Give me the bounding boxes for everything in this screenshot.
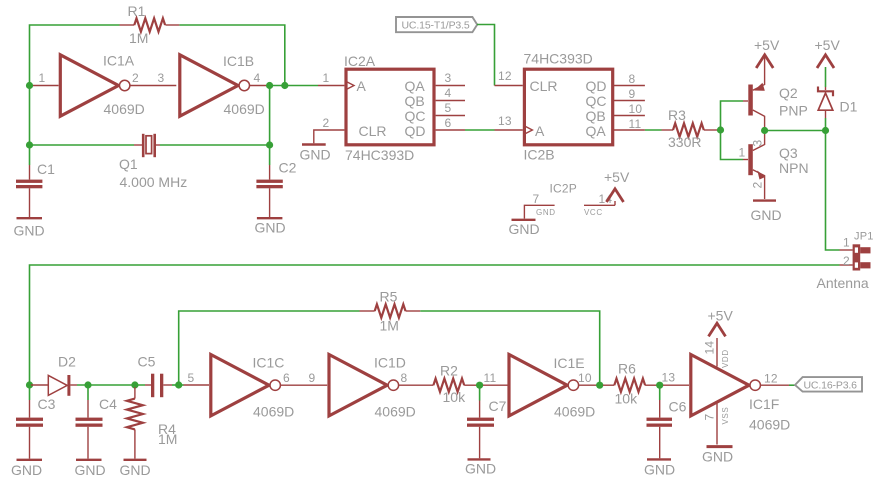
+5V supply at D1 — [815, 37, 841, 68]
op-amp inverter IC1B — [180, 53, 267, 117]
svg-text:UC.16-P3.6: UC.16-P3.6 — [804, 380, 858, 392]
svg-text:1M: 1M — [158, 431, 177, 447]
resistor R6 — [603, 361, 657, 407]
svg-text:3: 3 — [445, 71, 452, 85]
svg-text:R3: R3 — [668, 107, 686, 123]
wire collectors to D1 node — [765, 130, 826, 132]
wire crystal row left — [30, 144, 135, 146]
svg-text:GND: GND — [300, 147, 331, 163]
wire node down to JP1 pin1 — [826, 131, 840, 251]
svg-text:QA: QA — [586, 123, 607, 139]
svg-text:C3: C3 — [38, 396, 56, 412]
wire R2 to IC1E input — [477, 384, 484, 386]
svg-text:4069D: 4069D — [375, 404, 416, 420]
op-amp inverter IC1D — [329, 355, 416, 420]
wire pin6 to pin9 — [281, 371, 328, 385]
svg-text:IC1E: IC1E — [554, 355, 585, 371]
svg-text:11: 11 — [484, 371, 497, 385]
wire R3 to transistor bases — [717, 129, 721, 131]
power part IC2P pin7 — [524, 182, 577, 219]
svg-text:GND: GND — [751, 207, 782, 223]
svg-text:VDD: VDD — [721, 349, 730, 368]
svg-text:GND: GND — [509, 221, 540, 237]
svg-text:6: 6 — [283, 371, 290, 385]
svg-text:IC1D: IC1D — [374, 355, 406, 371]
capacitor C5 — [138, 354, 173, 398]
svg-text:VCC: VCC — [584, 208, 603, 217]
wire IC1F output to net label — [761, 384, 795, 386]
ground below Q3 — [751, 201, 782, 223]
svg-text:GND: GND — [702, 449, 733, 465]
ground below IC1F — [702, 447, 733, 465]
junction at C4 — [84, 381, 91, 388]
svg-text:IC1A: IC1A — [103, 53, 135, 69]
IC chip IC2A — [344, 53, 434, 163]
wire pin6 to pin13 — [465, 129, 495, 131]
op-amp inverter IC1E — [483, 355, 595, 420]
svg-text:12: 12 — [764, 372, 778, 386]
svg-text:1: 1 — [739, 146, 746, 160]
svg-text:R5: R5 — [380, 289, 398, 305]
svg-text:74HC393D: 74HC393D — [345, 147, 414, 163]
svg-text:14: 14 — [703, 341, 717, 355]
svg-text:R6: R6 — [618, 361, 636, 377]
svg-text:4069D: 4069D — [253, 404, 294, 420]
capacitor C3 — [16, 385, 56, 459]
wire base split to Q3 base — [721, 130, 744, 160]
svg-text:GND: GND — [11, 462, 42, 478]
svg-text:IC2B: IC2B — [524, 147, 555, 163]
svg-text:C1: C1 — [37, 161, 55, 177]
svg-text:4069D: 4069D — [554, 404, 595, 420]
svg-text:74HC393D: 74HC393D — [524, 51, 593, 67]
capacitor C4 — [76, 385, 118, 459]
svg-text:GND: GND — [14, 223, 45, 239]
svg-text:10k: 10k — [615, 391, 639, 407]
diode D1 zener — [818, 87, 858, 119]
IC2B pin13 stub — [495, 114, 523, 130]
wire IC1B output to IC2A pin1 — [267, 85, 318, 87]
svg-text:2: 2 — [132, 71, 139, 85]
svg-text:13: 13 — [662, 371, 676, 385]
junction at base split — [717, 126, 724, 133]
ground below C1 — [14, 218, 45, 238]
wire IC2A pin2 to ground — [314, 116, 345, 143]
wire feedback R5 right — [420, 311, 599, 385]
wire base split to Q2 base — [721, 101, 744, 130]
wire D1 to node — [825, 118, 827, 131]
svg-text:2: 2 — [323, 116, 330, 130]
IC1F pin14 VDD — [703, 338, 731, 368]
svg-text:10: 10 — [578, 371, 592, 385]
svg-text:4069D: 4069D — [224, 101, 265, 117]
svg-text:Q1: Q1 — [119, 156, 138, 172]
wire +5V to D1 — [825, 67, 827, 87]
svg-text:4: 4 — [445, 86, 452, 100]
svg-text:4: 4 — [254, 71, 261, 85]
svg-text:D1: D1 — [840, 99, 858, 115]
op-amp inverter IC1A — [31, 53, 145, 118]
JP1 pin1 stub — [840, 236, 853, 251]
svg-text:QA: QA — [405, 78, 426, 94]
svg-text:C5: C5 — [138, 354, 156, 370]
net label UC.16-P3.6 — [795, 377, 862, 392]
ground at IC2A pin2 — [300, 145, 331, 163]
svg-text:CLR: CLR — [359, 123, 387, 139]
IC2B output pin stubs 8,9,10 — [613, 72, 645, 116]
svg-text:A: A — [535, 123, 545, 139]
svg-text:12: 12 — [498, 69, 512, 83]
capacitor C7 — [467, 385, 507, 458]
svg-text:5: 5 — [445, 101, 452, 115]
net label UC.15-T1/P3.5 — [396, 17, 477, 32]
svg-text:QC: QC — [405, 108, 426, 124]
svg-text:5: 5 — [188, 371, 195, 385]
svg-text:+5V: +5V — [708, 308, 734, 324]
junction at C7 — [476, 382, 483, 389]
svg-text:A: A — [357, 78, 367, 94]
IC1F pin7 VSS — [703, 404, 731, 445]
wire crystal row right — [160, 144, 270, 146]
junction at D1 node — [822, 127, 829, 134]
svg-text:JP1: JP1 — [854, 231, 874, 243]
svg-text:QC: QC — [586, 93, 607, 109]
svg-text:GND: GND — [75, 462, 106, 478]
svg-text:Q3: Q3 — [779, 145, 798, 161]
ground below C3 — [11, 460, 42, 478]
svg-text:R1: R1 — [128, 3, 146, 19]
junction at IC1A input — [26, 82, 33, 89]
svg-text:1: 1 — [843, 236, 850, 250]
wire IC1E output to R6 — [579, 384, 597, 386]
svg-text:7: 7 — [703, 414, 717, 421]
connector JP1 — [817, 231, 874, 292]
ground below R4 — [120, 460, 151, 478]
svg-text:CLR: CLR — [530, 78, 558, 94]
svg-text:1M: 1M — [380, 318, 399, 334]
svg-text:6: 6 — [445, 116, 452, 130]
JP1 pin2 stub — [840, 254, 853, 268]
op-amp inverter IC1C — [184, 355, 295, 420]
wire pin11 to R3 — [645, 129, 662, 131]
wire feedback R5 left — [179, 311, 360, 385]
svg-text:330R: 330R — [668, 134, 701, 150]
capacitor C1 — [16, 145, 55, 217]
IC2B pin11 stub — [613, 117, 645, 131]
resistor R3 — [662, 107, 718, 150]
ground below C7 — [465, 459, 496, 476]
svg-text:IC2P: IC2P — [550, 182, 577, 196]
svg-text:11: 11 — [629, 117, 642, 131]
svg-text:8: 8 — [401, 371, 408, 385]
wire R6 to IC1F input — [657, 384, 664, 386]
junction at IC1C input — [175, 381, 182, 388]
resistor R2 — [399, 363, 477, 406]
svg-text:VSS: VSS — [721, 407, 730, 425]
svg-text:C2: C2 — [279, 160, 297, 176]
svg-text:4069D: 4069D — [104, 101, 145, 117]
svg-text:8: 8 — [629, 72, 636, 86]
svg-text:Antenna: Antenna — [817, 275, 869, 291]
svg-text:IC2A: IC2A — [344, 53, 376, 69]
ground below C2 — [255, 218, 286, 235]
diode D2 — [31, 354, 77, 396]
wire pin2 to pin3 — [130, 71, 176, 86]
svg-text:GND: GND — [644, 462, 675, 478]
wire IC2A pin1 stub — [318, 71, 344, 86]
transistor Q2 PNP — [743, 57, 808, 147]
ground below C4 — [75, 460, 106, 478]
svg-text:+5V: +5V — [754, 37, 780, 53]
svg-text:10k: 10k — [443, 389, 467, 405]
junction at C6 — [656, 382, 663, 389]
IC chip IC2B — [524, 51, 613, 163]
svg-text:C7: C7 — [489, 398, 507, 414]
junction at IC1B output — [266, 82, 273, 89]
svg-text:2: 2 — [843, 254, 850, 268]
+5V supply at IC2P — [604, 169, 630, 205]
svg-text:4069D: 4069D — [749, 417, 790, 433]
resistor R5 — [360, 289, 421, 334]
junction at R4 — [131, 381, 138, 388]
capacitor C6 — [647, 385, 687, 458]
ground below C6 — [644, 459, 675, 477]
wire top feedback loop right segment — [179, 25, 284, 86]
svg-text:NPN: NPN — [779, 160, 809, 176]
svg-text:PNP: PNP — [779, 103, 808, 119]
wire top feedback loop left segment — [30, 25, 120, 86]
svg-text:D2: D2 — [58, 354, 76, 370]
svg-text:C4: C4 — [99, 396, 117, 412]
IC2A output pin stubs 3,4,5 — [436, 71, 465, 116]
wire IC1B output down to crystal row — [269, 86, 271, 146]
svg-text:10: 10 — [629, 102, 643, 116]
svg-text:+5V: +5V — [815, 37, 841, 53]
power part IC2P pin14 — [584, 192, 615, 217]
svg-text:1M: 1M — [129, 30, 148, 46]
svg-text:IC1F: IC1F — [749, 396, 779, 412]
svg-text:4.000 MHz: 4.000 MHz — [120, 174, 188, 190]
svg-text:QD: QD — [405, 123, 426, 139]
crystal Q1 — [119, 134, 187, 190]
svg-text:3: 3 — [158, 71, 165, 85]
svg-text:1: 1 — [323, 71, 330, 85]
svg-text:QB: QB — [405, 93, 425, 109]
junction crystal row right — [266, 141, 273, 148]
wire C5 to IC1C input — [172, 384, 184, 386]
svg-text:13: 13 — [498, 114, 512, 128]
svg-text:1: 1 — [39, 71, 46, 85]
junction at top-loop drop — [281, 82, 288, 89]
junction at collectors — [761, 127, 768, 134]
svg-text:+5V: +5V — [604, 169, 630, 185]
svg-text:GND: GND — [465, 461, 496, 477]
wire D2 to C5 — [77, 384, 145, 386]
svg-text:7: 7 — [533, 192, 540, 206]
junction bottom-left — [26, 381, 33, 388]
svg-text:GND: GND — [536, 208, 556, 217]
ground at IC2P pin7 — [509, 220, 540, 237]
+5V supply at Q2 — [754, 37, 780, 68]
svg-text:IC1C: IC1C — [253, 355, 285, 371]
svg-text:R2: R2 — [440, 363, 458, 379]
svg-text:QD: QD — [586, 78, 607, 94]
transistor Q3 NPN — [739, 133, 809, 199]
svg-text:9: 9 — [629, 87, 636, 101]
junction at R5 feedback — [596, 382, 603, 389]
junction crystal row left — [26, 141, 33, 148]
svg-text:GND: GND — [255, 220, 286, 236]
op-amp inverter IC1F — [662, 355, 791, 433]
resistor R1 — [120, 3, 180, 46]
+5V supply at IC1F — [708, 308, 734, 337]
capacitor C2 — [256, 145, 296, 217]
svg-text:9: 9 — [309, 371, 316, 385]
svg-text:IC1B: IC1B — [223, 53, 254, 69]
svg-text:C6: C6 — [669, 399, 687, 415]
svg-text:2: 2 — [751, 182, 765, 189]
svg-text:GND: GND — [120, 462, 151, 478]
wire left vertical to crystal row — [29, 86, 31, 146]
IC2B pin12 stub — [495, 69, 523, 86]
svg-text:UC.15-T1/P3.5: UC.15-T1/P3.5 — [402, 20, 470, 32]
IC2A pin6 stub — [436, 116, 465, 130]
wire net label to IC2B pin12 — [477, 25, 495, 86]
wire bottom long net from top-left to antenna — [30, 265, 840, 385]
svg-text:QB: QB — [586, 108, 606, 124]
svg-text:Q2: Q2 — [779, 85, 798, 101]
resistor R4 — [127, 387, 178, 459]
